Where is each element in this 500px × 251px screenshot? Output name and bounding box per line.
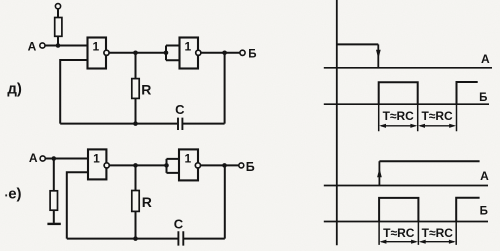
wire [45, 45, 88, 47]
resistor R (pull-up) [55, 18, 62, 37]
terminal Б [240, 50, 245, 55]
wire [109, 52, 166, 54]
wave A2 high [379, 160, 479, 162]
wire (bottom rail) [60, 123, 177, 125]
wire [201, 164, 239, 166]
svg-text:А: А [481, 52, 490, 66]
logic gate DD1.2 ("1" element) [180, 38, 199, 69]
wire [53, 210, 55, 223]
resistor R (to ground) [50, 191, 57, 210]
node (R bottom) [133, 236, 138, 241]
baseline Б2 [324, 221, 488, 223]
svg-text:Б: Б [246, 160, 255, 174]
pulse Б2 first [379, 198, 418, 222]
wire [45, 158, 88, 160]
logic gate DD1.1 ("1" element) [88, 38, 107, 69]
svg-text:1: 1 [184, 152, 191, 166]
arrowheads dimension row 1 [379, 124, 386, 128]
wire [53, 159, 55, 191]
svg-text:А: А [480, 169, 489, 183]
svg-text:T≈RC: T≈RC [383, 109, 415, 123]
svg-text:Б: Б [479, 92, 487, 104]
svg-text:1: 1 [93, 152, 100, 166]
wire (A1 falling edge) [377, 44, 379, 67]
node (R bottom) [133, 121, 138, 126]
inversion bubble DD1.1 [104, 50, 109, 55]
svg-text:T≈RC: T≈RC [421, 109, 453, 123]
wire [109, 164, 166, 166]
node (output) [222, 163, 227, 168]
wire (bottom rail) [67, 238, 179, 240]
arrowheads dimension row 2 [380, 240, 387, 244]
inversion bubble DD2.1 [104, 163, 109, 168]
node (to R) [133, 163, 138, 168]
logic gate DD2.1 ("1" element) [88, 149, 106, 179]
baseline A2 [324, 185, 488, 187]
node (gate2 inputs tie) [164, 51, 169, 56]
svg-text:C: C [175, 102, 185, 117]
scan speck [5, 194, 7, 196]
wire [182, 123, 225, 125]
capacitor C1 [178, 118, 182, 130]
inversion bubble DD2.2 [195, 163, 200, 168]
svg-text:T≈RC: T≈RC [383, 226, 415, 240]
svg-text:1: 1 [185, 40, 192, 54]
baseline A1 [324, 67, 492, 69]
node (gate inputs tie) [164, 163, 169, 168]
svg-text:Б: Б [480, 206, 488, 218]
wire [183, 238, 225, 240]
dimension arrows 2 [381, 241, 454, 243]
node (output) [222, 51, 227, 56]
svg-text:А: А [29, 151, 38, 165]
wire (feedback stub to DD1.1 lower input) [60, 60, 87, 124]
inversion bubble DD1.2 [196, 50, 201, 55]
wire (right riser) [224, 165, 226, 238]
wire [57, 9, 59, 18]
ground [47, 223, 60, 225]
svg-text:д): д) [7, 80, 22, 97]
wire (right riser) [224, 53, 226, 124]
node (to R) [133, 51, 138, 56]
svg-text:R: R [141, 81, 151, 97]
terminal Б [239, 163, 244, 168]
terminal A [40, 156, 45, 161]
pulse Б2 second [456, 198, 479, 222]
svg-text:Б: Б [248, 49, 256, 61]
pulse Б1 first [379, 82, 418, 104]
wire [135, 98, 137, 123]
svg-text:е): е) [8, 186, 21, 203]
svg-text:R: R [142, 194, 152, 210]
svg-text:T≈RC: T≈RC [422, 226, 454, 240]
node A junction [52, 156, 57, 161]
terminal A [40, 43, 45, 48]
axis (vertical) [336, 0, 338, 245]
capacitor C2 [178, 231, 183, 245]
wire (A2 rising edge) [378, 161, 380, 185]
extension lines 1 [379, 104, 457, 131]
svg-text:А: А [28, 40, 37, 54]
node A junction [56, 43, 61, 48]
terminal (pull-up top) [55, 4, 60, 9]
svg-text:1: 1 [92, 40, 99, 54]
pulse Б1 second [457, 82, 478, 104]
dimension arrows 1 [381, 125, 454, 127]
wire (R branch) [135, 53, 137, 79]
wire (R branch) [135, 165, 137, 190]
wire (input bracket DD1.2) [166, 46, 180, 61]
extension lines 2 [379, 222, 456, 245]
logic gate DD2.2 ("1" element) [179, 149, 198, 180]
svg-text:C: C [174, 216, 184, 231]
wire (feedback stub to DD2.1 lower input) [67, 172, 88, 238]
baseline Б1 [324, 103, 489, 105]
wire [201, 52, 240, 54]
arrowhead (A2 rising, up) [377, 168, 382, 177]
resistor R2 [132, 191, 139, 212]
wave A1 high [337, 43, 379, 45]
wire [57, 36, 59, 45]
wire [135, 211, 137, 238]
resistor R1 [132, 79, 139, 99]
wire (input bracket DD2.2) [167, 159, 180, 173]
arrowhead (A1 falling, down) [376, 50, 381, 59]
